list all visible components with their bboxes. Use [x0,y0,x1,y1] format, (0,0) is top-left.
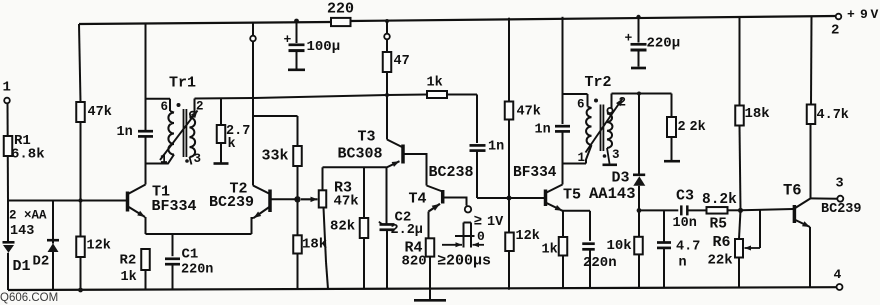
svg-text:n: n [679,256,687,271]
svg-text:820: 820 [402,254,427,270]
svg-text:18k: 18k [302,237,327,253]
svg-text:8.2k: 8.2k [702,192,737,208]
svg-text:BC238: BC238 [429,164,474,181]
svg-text:12k: 12k [87,239,111,254]
svg-text:1k: 1k [121,270,137,285]
svg-text:R5: R5 [710,216,727,232]
svg-text:AA143: AA143 [589,185,636,203]
svg-text:22k: 22k [708,253,733,269]
svg-text:220n: 220n [583,255,617,271]
svg-text:3: 3 [836,177,844,192]
svg-text:6: 6 [161,100,169,114]
svg-text:6: 6 [577,98,585,112]
svg-text:V: V [871,7,879,22]
svg-text:1V: 1V [487,215,504,230]
svg-text:D2: D2 [33,254,50,270]
svg-text:2 ×AA: 2 ×AA [9,209,47,223]
svg-text:2.2μ: 2.2μ [391,223,423,238]
svg-text:10n: 10n [673,216,697,231]
svg-text:47: 47 [394,54,410,69]
svg-text:BF334: BF334 [152,198,197,215]
svg-text:4.7k: 4.7k [817,108,849,123]
svg-text:47k: 47k [517,105,541,120]
svg-text:9: 9 [860,7,868,22]
svg-text:1: 1 [3,80,11,96]
svg-text:D1: D1 [13,258,31,275]
svg-text:2: 2 [678,120,686,135]
svg-text:Tr2: Tr2 [585,74,612,91]
svg-text:220μ: 220μ [647,36,681,52]
svg-text:R2: R2 [120,253,137,269]
svg-text:1n: 1n [535,123,551,138]
svg-text:0: 0 [477,229,485,244]
svg-text:143: 143 [10,224,34,239]
svg-text:4.7: 4.7 [676,240,700,255]
svg-text:BC308: BC308 [338,145,383,162]
svg-text:82k: 82k [330,219,355,235]
svg-text:1n: 1n [117,125,133,140]
svg-text:220: 220 [327,0,354,17]
svg-text:≥200μs: ≥200μs [437,252,491,269]
svg-text:T4: T4 [409,190,427,207]
svg-text:Tr1: Tr1 [169,74,196,91]
svg-text:1k: 1k [427,76,443,91]
svg-text:100μ: 100μ [307,39,341,55]
svg-text:Q606.COM: Q606.COM [0,292,58,304]
svg-text:2: 2 [831,23,839,39]
svg-text:3: 3 [612,148,620,162]
svg-text:k: k [228,137,236,152]
svg-text:220n: 220n [181,263,213,278]
svg-text:18k: 18k [745,106,770,122]
svg-text:T6: T6 [783,182,802,200]
svg-text:C3: C3 [676,187,694,204]
svg-text:4: 4 [834,267,842,282]
svg-text:1k: 1k [542,243,558,258]
svg-text:2k: 2k [690,120,706,135]
svg-text:1: 1 [578,151,586,165]
svg-text:BF334: BF334 [513,165,557,181]
svg-text:3: 3 [194,152,202,166]
svg-text:47k: 47k [88,105,112,120]
svg-text:10k: 10k [607,238,632,254]
svg-text:BC239: BC239 [821,202,862,217]
svg-text:33k: 33k [262,147,289,164]
svg-text:T5: T5 [563,186,581,203]
svg-text:12k: 12k [516,229,540,244]
svg-text:D3: D3 [612,169,630,186]
svg-text:6.8k: 6.8k [11,147,45,163]
svg-text:1n: 1n [488,140,504,155]
svg-text:+: + [847,7,855,22]
svg-text:T3: T3 [358,128,376,145]
svg-text:BC239: BC239 [209,194,254,211]
svg-text:R6: R6 [713,234,731,251]
svg-text:47k: 47k [334,194,359,210]
svg-text:≥: ≥ [474,214,482,230]
svg-text:C1: C1 [182,247,199,263]
